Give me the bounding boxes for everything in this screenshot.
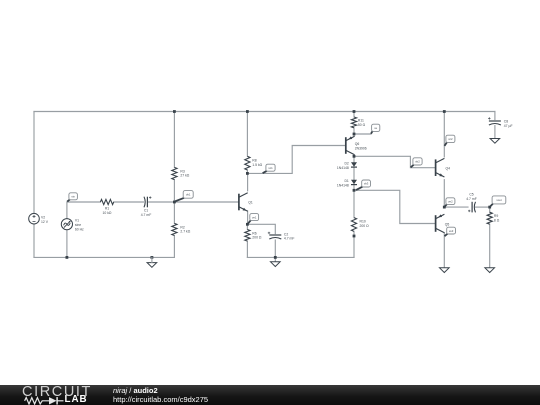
ground symbol under R9 [485, 268, 495, 273]
ground symbol left net [147, 263, 157, 268]
diode D1 1N4148 [337, 179, 357, 187]
wire V2 top lead [33, 112, 35, 214]
svg-text:8 Ω: 8 Ω [494, 218, 500, 222]
wire bottom-left ground net [34, 256, 174, 258]
wire C5 to node vout [475, 206, 489, 208]
ground symbol under C8 [490, 139, 500, 144]
svg-text:R11: R11 [358, 119, 364, 123]
net flag ve2 [445, 198, 455, 207]
svg-text:R3: R3 [180, 169, 184, 173]
node ve1 junction [246, 223, 249, 226]
net flag vb2 [411, 158, 423, 168]
svg-text:1N4148: 1N4148 [337, 166, 349, 170]
node junction C2/ground net [274, 256, 277, 259]
svg-text:27 kΩ: 27 kΩ [180, 174, 189, 178]
capacitor C1 4.7 mF [144, 197, 145, 208]
node junction rail/Q4 [443, 110, 446, 113]
wire C8 to ground stem [494, 126, 496, 139]
wire Q1 emitter to node ve1 [247, 211, 249, 224]
net flag vb1 [175, 191, 193, 202]
svg-text:1.5 kΩ: 1.5 kΩ [252, 163, 262, 167]
wire node ve1 to C2 [247, 224, 275, 233]
svg-text:vc1: vc1 [268, 166, 273, 170]
wire R11 to Q6 emitter [353, 128, 355, 136]
wire top supply rail [34, 111, 495, 113]
wire R6 to ground net [246, 241, 248, 257]
net flag vin [67, 193, 77, 202]
capacitor C8 47 uF [489, 120, 501, 122]
wire node vc to Q4 base [354, 156, 435, 167]
wire V1 to R1 (node vin) [67, 202, 101, 219]
svg-text:C8: C8 [504, 120, 508, 124]
svg-text:vout: vout [496, 198, 502, 202]
svg-text:vin: vin [71, 195, 75, 199]
svg-text:Q6: Q6 [355, 142, 360, 146]
svg-text:ve2: ve2 [448, 199, 453, 203]
svg-text:D1: D1 [344, 179, 348, 183]
node vb3 junction [353, 189, 356, 192]
transistor Q4 NPN [436, 158, 451, 177]
svg-text:10 kΩ: 10 kΩ [103, 211, 112, 215]
wire node ve1 to R6 [246, 224, 248, 229]
svg-text:R2: R2 [180, 225, 184, 229]
wire D1 cathode to node vb3 [353, 185, 355, 190]
svg-text:200 Ω: 200 Ω [360, 224, 370, 228]
svg-text:vb2: vb2 [415, 160, 420, 164]
svg-text:R8: R8 [252, 159, 256, 163]
wire node vout to R9 [489, 207, 491, 212]
svg-text:V2: V2 [41, 216, 45, 220]
svg-text:60 Hz: 60 Hz [75, 227, 84, 231]
wire R8 to node vc1 [246, 170, 248, 173]
svg-text:vc2: vc2 [448, 137, 453, 141]
node vout junction [488, 206, 491, 209]
wire C1 to node vb1 [149, 201, 175, 203]
wire node vb1 to Q1 base [174, 201, 238, 203]
svg-text:ve1: ve1 [252, 215, 257, 219]
net flag vout [490, 196, 506, 207]
svg-text:50 Ω: 50 Ω [358, 123, 366, 127]
wire R1 to C1 [114, 201, 144, 203]
wire rail to Q4 collector [443, 112, 445, 157]
node vc junction [353, 155, 356, 158]
wire Q6 collector to D2 anode [353, 156, 355, 162]
node junction rail/R3 [173, 110, 176, 113]
node ve2 junction [443, 206, 446, 209]
svg-text:12 V: 12 V [41, 220, 49, 224]
wire rail to C8 [494, 112, 496, 120]
svg-text:47 µF: 47 µF [504, 124, 513, 128]
diode D2 1N4148 [337, 161, 357, 169]
net flag ve [371, 124, 380, 134]
svg-text:4.7 mF: 4.7 mF [141, 213, 152, 217]
svg-text:Q4: Q4 [446, 167, 451, 171]
svg-text:R9: R9 [494, 214, 498, 218]
wire rail to R3 [173, 112, 175, 168]
svg-text:R6: R6 [252, 231, 256, 235]
wire V1 bottom lead [66, 230, 68, 257]
wire node vb3 to R10 [353, 190, 355, 217]
svg-text:200 Ω: 200 Ω [252, 236, 262, 240]
resistor R1 10 kOhm [100, 199, 113, 204]
svg-text:1N4148: 1N4148 [337, 183, 349, 187]
svg-text:C2: C2 [284, 232, 288, 236]
wire Q4 emitter to node ve2 [443, 180, 445, 207]
wire node vc1 to Q6 base [247, 146, 345, 174]
resistor R2 2.7 kOhm [172, 223, 177, 235]
svg-text:2N3906: 2N3906 [355, 147, 367, 151]
ground symbol under C2 [271, 262, 281, 267]
node vb1 junction [173, 201, 176, 204]
node junction rail/R11 [353, 110, 356, 113]
transistor Q1 NPN [239, 193, 253, 212]
node ve junction [353, 133, 356, 136]
svg-text:D2: D2 [344, 161, 348, 165]
svg-text:Q1: Q1 [248, 201, 253, 205]
svg-text:R1: R1 [105, 206, 109, 210]
wire R3 to R2 through node vb1 [173, 180, 175, 224]
svg-text:4.7 mF: 4.7 mF [284, 237, 295, 241]
wire ground stem left [151, 257, 153, 262]
wire C2 to ground net [274, 240, 276, 257]
net flag ve1 [248, 214, 259, 224]
signal source V1 sine 60 Hz [61, 219, 84, 232]
node vc1 junction [246, 172, 249, 175]
net flag vc1 [263, 164, 276, 173]
svg-text:C5: C5 [469, 193, 473, 197]
wire rail to R8 [246, 112, 248, 157]
svg-text:sine: sine [75, 223, 81, 227]
resistor R6 200 Ohm [245, 230, 250, 242]
voltage source V2 12 V [29, 213, 49, 224]
resistor R9 8 Ohm [487, 212, 492, 224]
svg-text:vb1: vb1 [186, 193, 191, 197]
wire V2 bottom lead [33, 224, 35, 257]
net flag ve3 [445, 227, 456, 236]
node junction ground symbol left [151, 256, 154, 259]
capacitor C5 4.7 mF [471, 202, 473, 213]
capacitor C2 4.7 mF [269, 234, 281, 236]
wire R2 to ground net [173, 236, 175, 258]
node R10 bottom terminal [353, 235, 356, 238]
wire node vb3 to Q5 base [354, 190, 435, 223]
svg-text:ve: ve [374, 126, 377, 130]
svg-text:vb3: vb3 [364, 182, 369, 186]
svg-text:2.7 kΩ: 2.7 kΩ [180, 230, 190, 234]
svg-text:R10: R10 [360, 219, 366, 223]
wire bottom-middle ground net [247, 256, 354, 258]
wire C2 ground stem [274, 257, 276, 261]
wire rail to R11 [353, 112, 355, 118]
wire Q1 collector lead [247, 173, 249, 190]
svg-text:V1: V1 [75, 219, 79, 223]
resistor R11 50 Ohm [351, 117, 356, 128]
CircuitLab logo [22, 386, 112, 405]
wire node ve stub [354, 133, 371, 135]
node junction ground/V1 [66, 256, 69, 259]
wire R10 to ground net [353, 231, 355, 257]
wire Q5 collector to ground [443, 233, 445, 268]
node junction rail/R8 [246, 110, 249, 113]
svg-text:Q5: Q5 [445, 222, 450, 226]
resistor R10 200 Ohm [351, 218, 356, 232]
svg-text:C1: C1 [144, 209, 148, 213]
wire node ve2 to C5 [444, 206, 468, 208]
transistor Q5 PNP [436, 214, 450, 233]
ground symbol under Q5 [440, 268, 450, 273]
resistor R8 1.5 kOhm [245, 156, 250, 170]
wire D2 cathode to D1 anode [353, 168, 355, 180]
resistor R3 27 kOhm [172, 167, 177, 179]
svg-text:ve3: ve3 [449, 229, 454, 233]
transistor Q6 2N3906 PNP [346, 136, 360, 155]
wire R9 to ground [489, 224, 491, 267]
net flag vc2 [445, 135, 455, 146]
svg-text:4.7 mF: 4.7 mF [466, 197, 477, 201]
footer title text [113, 386, 208, 404]
net flag vb3 [356, 180, 371, 190]
